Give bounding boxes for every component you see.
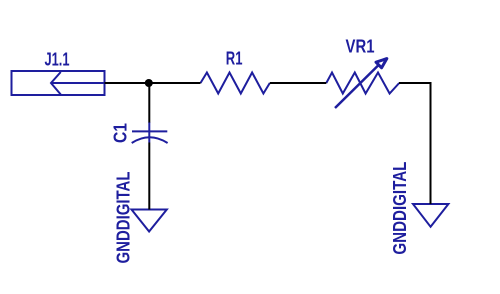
svg-text:R1: R1 <box>226 49 243 69</box>
svg-text:J1.1: J1.1 <box>45 49 70 69</box>
svg-text:C1: C1 <box>110 123 130 143</box>
svg-text:GNDDIGITAL: GNDDIGITAL <box>390 162 410 255</box>
svg-text:GNDDIGITAL: GNDDIGITAL <box>113 171 133 263</box>
svg-text:VR1: VR1 <box>346 37 375 57</box>
